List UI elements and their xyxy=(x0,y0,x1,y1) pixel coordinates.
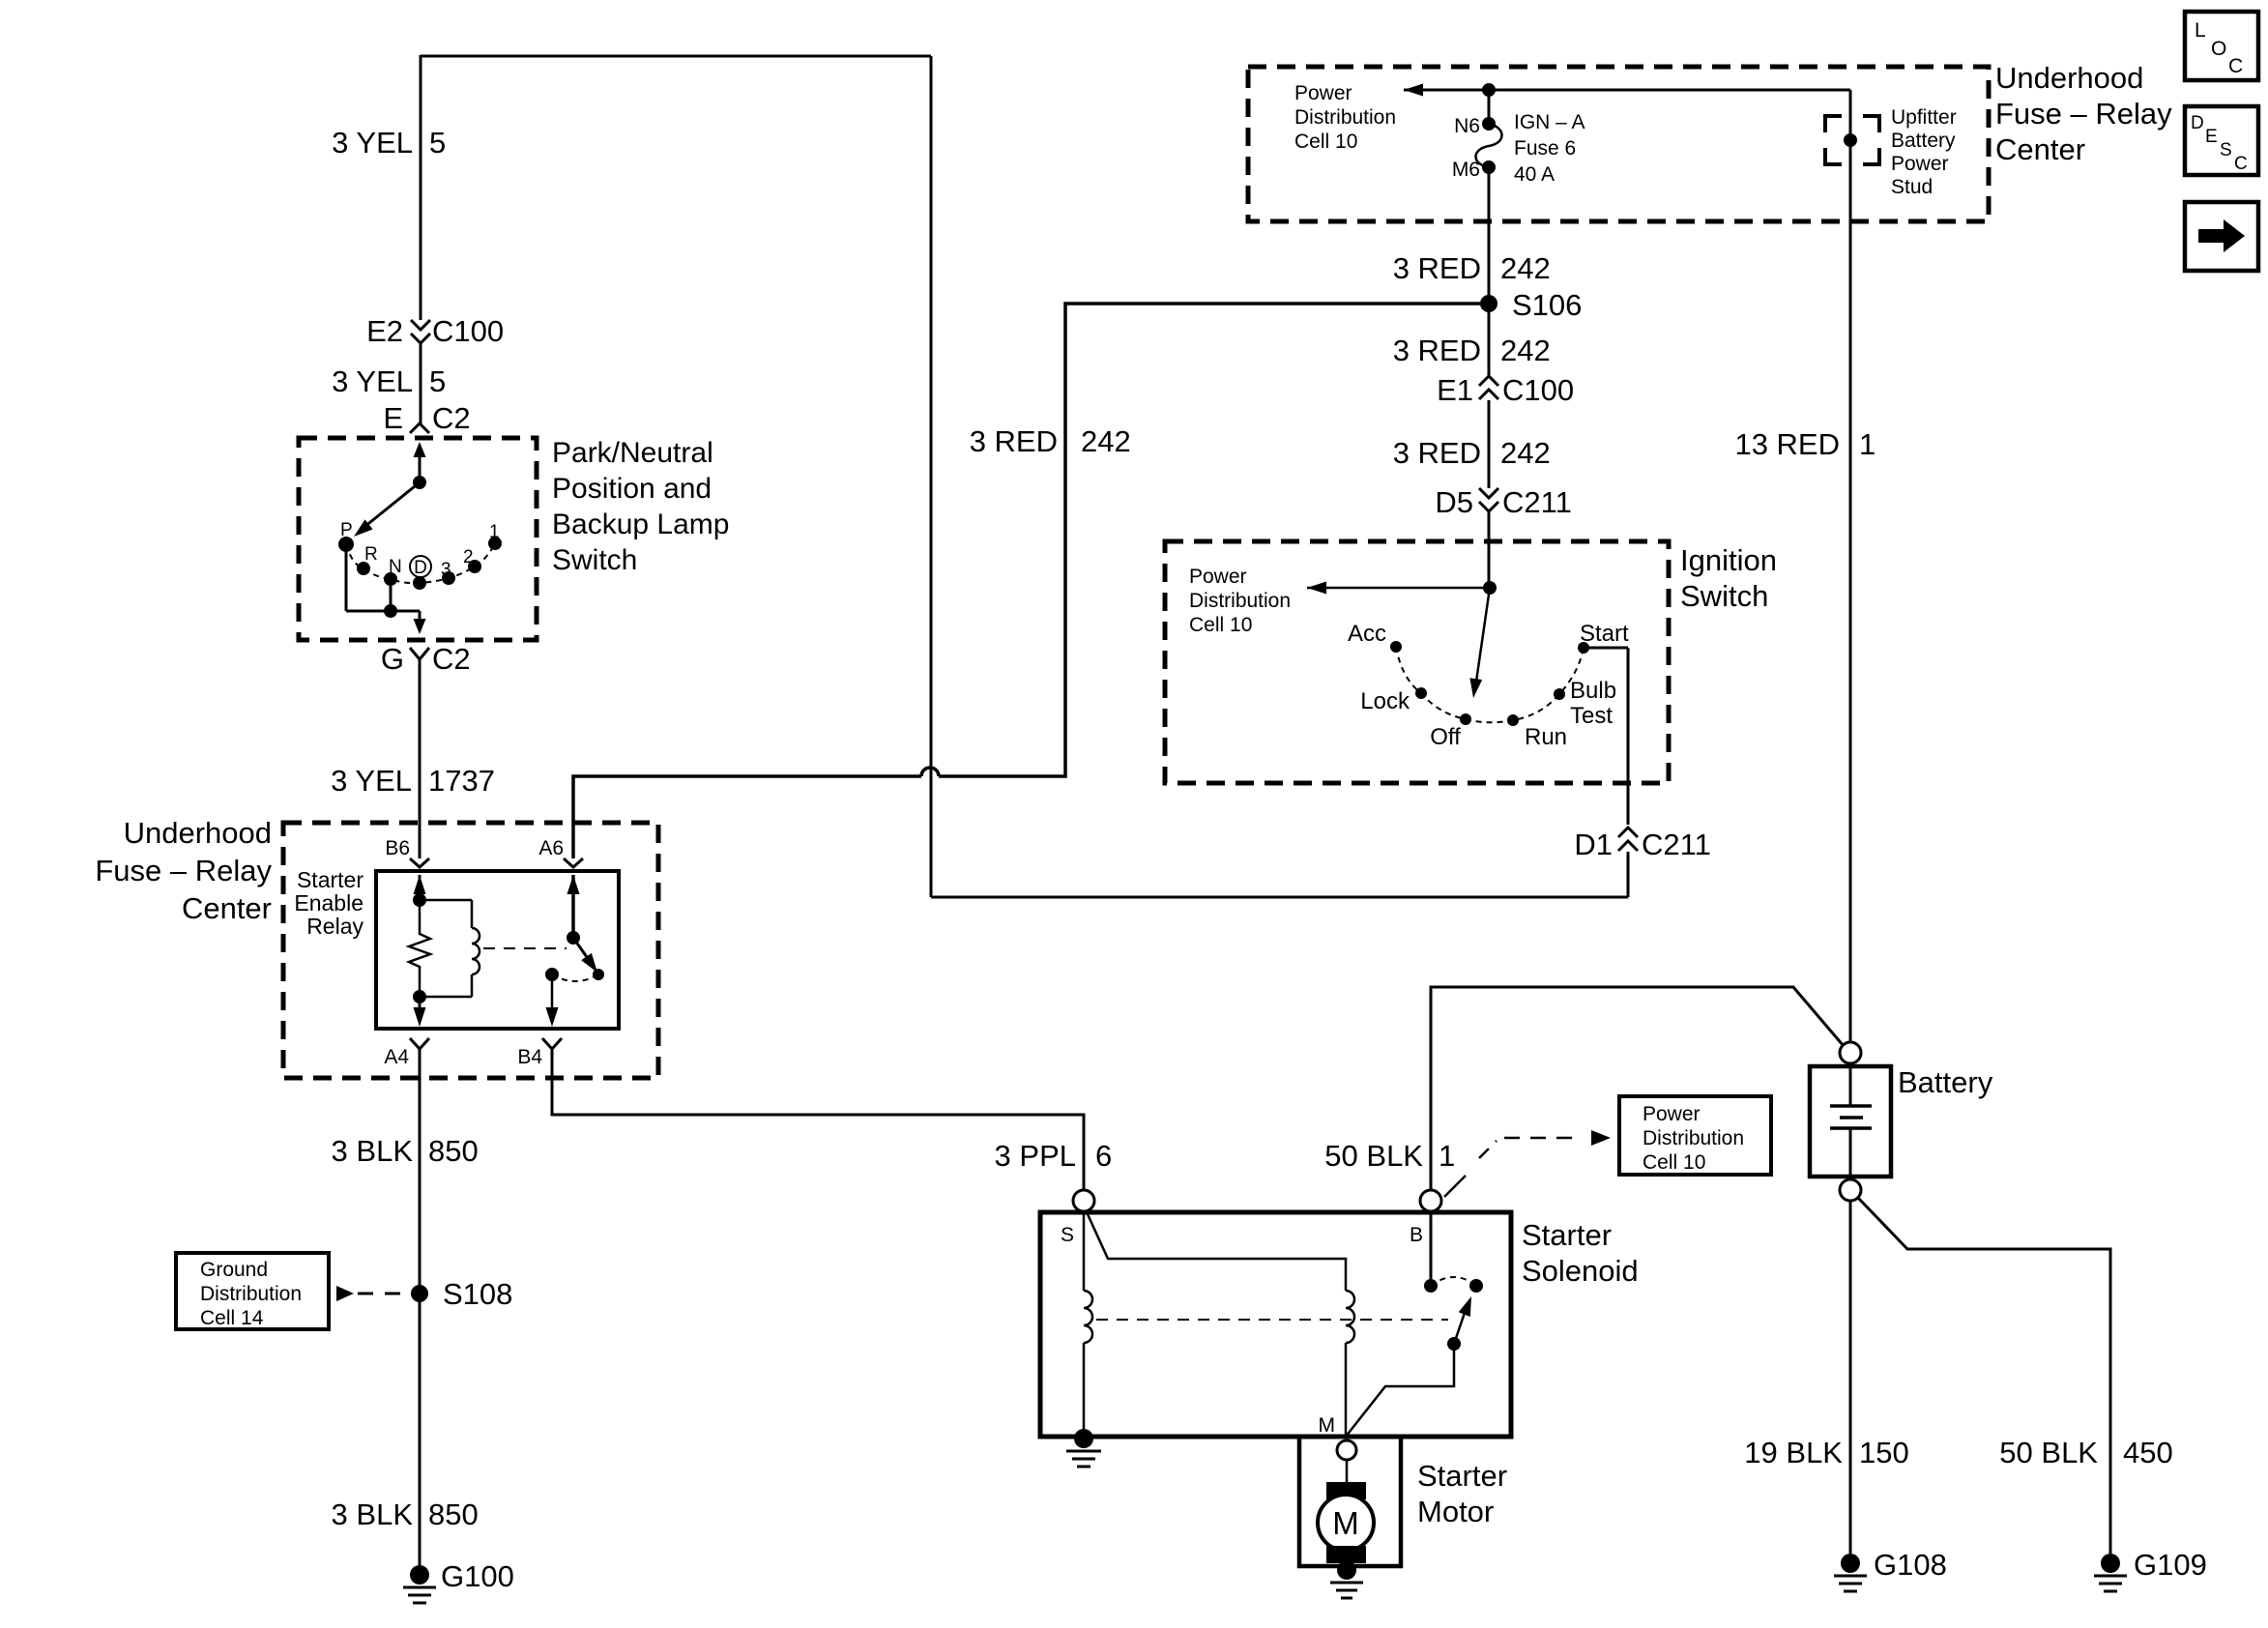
ignition feed junction dot xyxy=(1483,581,1497,595)
relay coil L (arcs) xyxy=(472,928,480,974)
Starter Motor box xyxy=(1299,1437,1401,1566)
svg-text:13 RED: 13 RED xyxy=(1734,427,1840,461)
svg-text:50 BLK: 50 BLK xyxy=(1999,1436,2098,1469)
relay pin A4 vee xyxy=(410,1038,429,1049)
relay contact entry arrow xyxy=(567,875,580,938)
battery negative terminal ring xyxy=(1840,1179,1861,1201)
svg-text:Distribution: Distribution xyxy=(200,1283,302,1305)
solenoid dashed actuation link xyxy=(1096,1319,1448,1321)
svg-text:3 YEL: 3 YEL xyxy=(331,764,412,798)
wire 3 BLK 850 upper xyxy=(419,1049,422,1294)
label M motor xyxy=(1332,1505,1359,1541)
ignition contact Lock dot xyxy=(1415,687,1427,699)
svg-text:S: S xyxy=(1061,1224,1074,1246)
svg-text:Start: Start xyxy=(1580,621,1629,647)
svg-text:40 A: 40 A xyxy=(1514,163,1555,186)
motor ground dot xyxy=(1337,1560,1356,1580)
PNP wire from N down xyxy=(390,579,393,611)
label Run xyxy=(1525,724,1567,750)
Upfitter Battery Power Stud corner brackets xyxy=(1825,116,1879,164)
fuse feed junction dot xyxy=(1482,83,1496,97)
svg-text:3: 3 xyxy=(441,560,451,580)
feed arrow to Power Distribution xyxy=(1404,84,1489,97)
svg-text:R: R xyxy=(364,544,378,565)
solenoid terminal B ring xyxy=(1420,1190,1441,1211)
Underhood Fuse-Relay Center dashed box (relay) xyxy=(283,823,658,1078)
label IGN - A Fuse 6 40 A xyxy=(1514,111,1585,186)
svg-text:Run: Run xyxy=(1525,724,1567,750)
svg-text:3 RED: 3 RED xyxy=(1393,334,1481,367)
label 2 (PNP) xyxy=(463,547,474,567)
ignition switch movable arm xyxy=(1469,588,1490,698)
label Underhood Fuse - Relay Center (left) xyxy=(95,816,272,925)
label S106 xyxy=(1512,288,1582,322)
svg-text:Test: Test xyxy=(1570,703,1613,729)
wire battery negative to G108 xyxy=(1849,1201,1852,1554)
connector C100 pin E2 (inline connector halves) xyxy=(366,314,504,348)
label 3 YEL 5 (lower) xyxy=(332,364,446,398)
label 3 RED 242 (above S106) xyxy=(1393,251,1551,285)
svg-text:242: 242 xyxy=(1081,424,1131,458)
connector C2 pin E (half caret) xyxy=(383,401,470,435)
svg-text:C: C xyxy=(2228,55,2243,77)
Starter Enable Relay box xyxy=(376,871,619,1029)
svg-text:Motor: Motor xyxy=(1417,1495,1494,1528)
svg-text:1: 1 xyxy=(489,522,500,542)
relay contact exit arrow down xyxy=(546,974,559,1027)
wire top horizontal from PNP switch feed to ignition-start return xyxy=(421,55,931,58)
solenoid hold-in coil xyxy=(1084,1291,1092,1343)
label Ignition Switch xyxy=(1680,543,1777,613)
PNP switch common junction dot xyxy=(413,476,426,489)
svg-text:Cell 14: Cell 14 xyxy=(200,1307,264,1329)
svg-text:B6: B6 xyxy=(385,837,410,859)
PNP output bus wire xyxy=(346,610,420,613)
Park/Neutral Position and Backup Lamp Switch dashed box xyxy=(299,438,537,640)
svg-text:C: C xyxy=(2234,154,2248,174)
svg-text:M: M xyxy=(1332,1505,1359,1541)
svg-text:Fuse – Relay: Fuse – Relay xyxy=(1995,97,2172,131)
label 3 (PNP) xyxy=(441,560,451,580)
svg-text:IGN – A: IGN – A xyxy=(1514,111,1585,133)
svg-text:3 RED: 3 RED xyxy=(970,424,1058,458)
label Starter Enable Relay xyxy=(294,867,363,939)
wire junction to fuse xyxy=(1488,90,1491,120)
battery internal bottom lead xyxy=(1849,1128,1852,1177)
svg-text:G108: G108 xyxy=(1874,1548,1947,1582)
svg-text:C211: C211 xyxy=(1502,485,1572,519)
svg-text:E: E xyxy=(2205,127,2218,147)
svg-text:3 BLK: 3 BLK xyxy=(332,1134,414,1168)
fuse IGN-A Fuse 6 40A element xyxy=(1476,124,1502,167)
svg-text:Battery: Battery xyxy=(1898,1065,1993,1099)
battery positive terminal ring xyxy=(1840,1042,1861,1063)
solenoid arm pivot dot xyxy=(1447,1337,1461,1351)
svg-text:Cell 10: Cell 10 xyxy=(1189,614,1252,636)
svg-text:Relay: Relay xyxy=(306,914,363,939)
Ground Distribution Cell 14 reference box xyxy=(176,1253,329,1329)
solenoid throw contact dot xyxy=(1469,1279,1483,1293)
svg-text:450: 450 xyxy=(2123,1436,2173,1469)
svg-text:3 YEL: 3 YEL xyxy=(332,126,413,160)
svg-text:1737: 1737 xyxy=(428,764,495,798)
label 50 BLK 450 xyxy=(1999,1436,2172,1469)
label Starter Motor xyxy=(1417,1459,1507,1528)
label Off xyxy=(1430,724,1461,750)
PNP switch entry arrow (male pin pointing up at C2) xyxy=(414,442,426,482)
svg-text:Fuse 6: Fuse 6 xyxy=(1514,137,1576,160)
wire 3 YEL 5 upper vertical xyxy=(420,55,422,320)
relay movable arm xyxy=(573,938,597,973)
svg-text:3 RED: 3 RED xyxy=(1393,436,1481,470)
svg-text:Power: Power xyxy=(1294,82,1352,104)
label B6 xyxy=(385,837,410,859)
battery internal top lead xyxy=(1849,1066,1852,1106)
svg-text:E1: E1 xyxy=(1437,373,1473,407)
solenoid pull-in coil xyxy=(1346,1291,1354,1343)
svg-text:50 BLK: 50 BLK xyxy=(1324,1139,1423,1173)
svg-text:Center: Center xyxy=(1995,132,2085,166)
label 50 BLK 1 xyxy=(1324,1139,1455,1173)
label Power Distribution Cell 10 (ignition) xyxy=(1189,566,1291,636)
svg-text:Cell 10: Cell 10 xyxy=(1643,1151,1705,1174)
label 3 PPL 6 xyxy=(995,1139,1113,1173)
svg-text:Battery: Battery xyxy=(1891,130,1956,152)
Starter Solenoid box xyxy=(1040,1212,1511,1437)
svg-text:E2: E2 xyxy=(366,314,403,348)
PNP exit arrow down to C2 pin G xyxy=(414,611,426,634)
label Bulb Test xyxy=(1570,678,1616,729)
fuse M6 terminal dot xyxy=(1482,160,1496,174)
label A6 xyxy=(538,837,564,859)
label 19 BLK 150 xyxy=(1744,1436,1908,1469)
motor brush block bottom xyxy=(1326,1546,1366,1563)
wire 50 BLK 1 from solenoid B to battery positive xyxy=(1431,987,1844,1192)
relay coil wire bottom xyxy=(420,974,472,997)
battery plate long top xyxy=(1830,1104,1872,1108)
upfitter stud dot xyxy=(1844,133,1857,147)
svg-text:3 RED: 3 RED xyxy=(1393,251,1481,285)
solenoid pull-in winding branch xyxy=(1088,1214,1346,1291)
label R xyxy=(364,544,378,565)
relay switch pivot dot xyxy=(567,931,580,945)
ignition dashed position arc xyxy=(1396,647,1584,722)
connector C211 pin D5 (half vees) xyxy=(1435,485,1571,519)
solenoid ground dot xyxy=(1074,1429,1093,1448)
reference arrow to S108 xyxy=(336,1286,410,1301)
svg-text:242: 242 xyxy=(1500,251,1551,285)
svg-text:Ignition: Ignition xyxy=(1680,543,1777,577)
svg-text:A6: A6 xyxy=(538,837,564,859)
PNP dashed position arc xyxy=(346,543,495,583)
svg-text:1: 1 xyxy=(1439,1139,1455,1173)
ground G109 xyxy=(2094,1554,2127,1591)
svg-text:G109: G109 xyxy=(2134,1548,2207,1582)
label Battery xyxy=(1898,1065,1993,1099)
wire start return riser to D1 xyxy=(1627,852,1630,897)
svg-text:Cell 10: Cell 10 xyxy=(1294,131,1357,153)
motor brush block top xyxy=(1326,1482,1366,1499)
label B terminal xyxy=(1410,1224,1423,1246)
label Upfitter Battery Power Stud xyxy=(1891,106,1957,198)
svg-text:Switch: Switch xyxy=(552,544,637,576)
svg-text:L: L xyxy=(2195,19,2206,42)
svg-text:Distribution: Distribution xyxy=(1294,106,1396,129)
wire 3 RED 242 branch from S106 to relay contact A6 xyxy=(573,304,1480,858)
connector C100 pin E1 (half carets) xyxy=(1437,373,1574,407)
label G108 xyxy=(1874,1548,1947,1582)
fuse N6 terminal dot xyxy=(1482,117,1496,131)
wire slash reference mark xyxy=(1444,1176,1466,1197)
svg-text:P: P xyxy=(340,520,353,540)
relay pin A6 vee xyxy=(564,858,583,867)
label 13 RED 1 xyxy=(1734,427,1875,461)
wire fuse feed to upfitter stud xyxy=(1489,90,1850,136)
svg-text:Position and: Position and xyxy=(552,473,712,505)
wire 3 YEL 1737 vertical xyxy=(419,659,422,858)
svg-text:A4: A4 xyxy=(384,1046,409,1068)
svg-text:Fuse – Relay: Fuse – Relay xyxy=(95,854,272,887)
ignition contact Bulb Test dot xyxy=(1554,688,1565,700)
ground G108 xyxy=(1834,1554,1867,1591)
solenoid pull-in coil to M xyxy=(1345,1343,1348,1437)
label N6 xyxy=(1454,115,1480,137)
svg-text:Distribution: Distribution xyxy=(1189,590,1291,612)
svg-text:19 BLK: 19 BLK xyxy=(1744,1436,1843,1469)
relay resistor R (zigzag) xyxy=(409,900,430,997)
LOC icon box xyxy=(2185,12,2258,80)
solenoid movable arm xyxy=(1454,1296,1471,1344)
solenoid M terminal ring xyxy=(1337,1440,1356,1460)
svg-text:Power: Power xyxy=(1189,566,1247,588)
svg-text:242: 242 xyxy=(1500,436,1551,470)
label Underhood Fuse - Relay Center (top right) xyxy=(1995,61,2172,166)
solenoid dashed throw arc xyxy=(1431,1277,1476,1286)
label Park/Neutral Position and Backup Lamp Switch xyxy=(552,437,729,576)
svg-text:Power: Power xyxy=(1643,1103,1701,1125)
ignition feed arrow to power distribution xyxy=(1307,582,1490,595)
relay coil-side entry arrow xyxy=(414,875,426,900)
svg-text:B: B xyxy=(1410,1224,1423,1246)
next-page arrow icon box xyxy=(2185,202,2258,271)
svg-text:D: D xyxy=(2191,113,2204,133)
relay stationary contact dot xyxy=(545,968,559,981)
PNP contact R dot xyxy=(357,562,370,575)
wire 3 YEL 5 lower vertical xyxy=(420,343,422,423)
solenoid B contact lead xyxy=(1430,1211,1433,1286)
battery plate short xyxy=(1840,1116,1863,1119)
svg-text:Underhood: Underhood xyxy=(1995,61,2143,95)
motor lead from M xyxy=(1346,1460,1349,1487)
svg-text:Switch: Switch xyxy=(1680,579,1768,613)
PNP contact 3 dot xyxy=(442,571,455,585)
svg-text:M6: M6 xyxy=(1452,159,1480,181)
PNP switch movable contact arm toward P xyxy=(354,482,420,537)
label 1 (PNP) xyxy=(489,522,500,542)
label Start xyxy=(1580,621,1629,647)
label A4 xyxy=(384,1046,409,1068)
label G100 xyxy=(441,1559,514,1593)
relay coil exit arrow down xyxy=(414,997,426,1027)
ignition contact Start dot xyxy=(1578,642,1589,654)
svg-text:850: 850 xyxy=(428,1134,479,1168)
battery plate long bottom xyxy=(1830,1126,1872,1130)
svg-text:C2: C2 xyxy=(432,642,471,676)
svg-text:Center: Center xyxy=(182,891,272,925)
battery B1 box xyxy=(1810,1066,1891,1177)
label 3 BLK 850 (lower) xyxy=(332,1497,479,1531)
connector C2 pin G (half vee) xyxy=(381,642,471,676)
ignition contact Off dot xyxy=(1460,713,1471,725)
svg-text:Starter: Starter xyxy=(297,867,363,892)
svg-text:Ground: Ground xyxy=(200,1259,268,1281)
wire ignition start return vertical xyxy=(930,56,933,897)
motor ground symbol xyxy=(1330,1583,1363,1598)
Underhood Fuse-Relay Center dashed box (top) xyxy=(1248,67,1989,221)
label 3 BLK 850 (upper) xyxy=(332,1134,479,1168)
svg-text:Enable: Enable xyxy=(294,890,363,916)
svg-text:E: E xyxy=(383,401,403,435)
label B4 xyxy=(517,1046,542,1068)
label M terminal xyxy=(1319,1414,1336,1437)
label 3 YEL 1737 xyxy=(331,764,495,798)
svg-text:Upfitter: Upfitter xyxy=(1891,106,1957,129)
svg-text:Starter: Starter xyxy=(1522,1218,1612,1252)
svg-text:Underhood: Underhood xyxy=(124,816,272,850)
svg-text:D1: D1 xyxy=(1574,828,1613,861)
svg-text:N: N xyxy=(389,557,402,577)
svg-text:6: 6 xyxy=(1095,1139,1112,1173)
svg-text:S: S xyxy=(2220,140,2232,160)
svg-text:242: 242 xyxy=(1500,334,1551,367)
svg-text:5: 5 xyxy=(429,126,446,160)
PNP contact P dot xyxy=(338,537,354,552)
label Starter Solenoid xyxy=(1522,1218,1639,1288)
svg-text:3 YEL: 3 YEL xyxy=(332,364,413,398)
svg-text:Solenoid: Solenoid xyxy=(1522,1254,1639,1288)
label N xyxy=(389,557,402,577)
svg-text:Power: Power xyxy=(1891,153,1949,175)
ignition contact Run dot xyxy=(1507,714,1519,726)
wire fuse M6 down to S106 xyxy=(1488,167,1491,304)
relay arm end dot xyxy=(593,969,604,980)
relay pin B4 vee xyxy=(542,1038,562,1049)
svg-text:150: 150 xyxy=(1859,1436,1909,1469)
svg-text:D: D xyxy=(414,558,427,578)
svg-text:N6: N6 xyxy=(1454,115,1480,137)
relay dashed throw arc xyxy=(552,974,598,981)
DESC icon box xyxy=(2185,106,2258,175)
svg-text:C100: C100 xyxy=(432,314,504,348)
label G109 xyxy=(2134,1548,2207,1582)
label Power Distribution Cell 10 (battery) xyxy=(1643,1103,1744,1174)
solenoid ground symbol xyxy=(1066,1451,1101,1467)
label S terminal xyxy=(1061,1224,1074,1246)
svg-text:Bulb: Bulb xyxy=(1570,678,1616,704)
label 3 RED 242 (below S106) xyxy=(1393,334,1551,367)
wire S106 to C100 xyxy=(1488,304,1491,376)
wire 3 BLK 850 lower xyxy=(419,1294,422,1575)
wire C211 into ignition switch xyxy=(1488,511,1491,588)
solenoid B contact dot xyxy=(1424,1279,1438,1293)
label M6 xyxy=(1452,159,1480,181)
svg-text:O: O xyxy=(2211,38,2226,60)
svg-text:C100: C100 xyxy=(1502,373,1574,407)
label P xyxy=(340,520,353,540)
label 3 RED 242 (left branch) xyxy=(970,424,1131,458)
label 3 YEL 5 (upper) xyxy=(332,126,446,160)
svg-text:Starter: Starter xyxy=(1417,1459,1507,1493)
splice S106 dot xyxy=(1480,295,1497,312)
label Power Distribution Cell 10 (top box) xyxy=(1294,82,1396,153)
svg-text:D5: D5 xyxy=(1435,485,1473,519)
dashed reference arrow to Power Distribution Cell 10 xyxy=(1479,1130,1611,1158)
svg-text:2: 2 xyxy=(463,547,474,567)
svg-text:3 BLK: 3 BLK xyxy=(332,1497,414,1531)
wire 3 PPL 6 run xyxy=(552,1049,1084,1192)
relay coil top junction dot xyxy=(413,893,426,907)
svg-text:S106: S106 xyxy=(1512,288,1582,322)
svg-text:5: 5 xyxy=(429,364,446,398)
svg-text:Acc: Acc xyxy=(1348,621,1386,647)
svg-text:850: 850 xyxy=(428,1497,479,1531)
ignition contact Acc dot xyxy=(1390,641,1402,653)
svg-text:Off: Off xyxy=(1430,724,1461,750)
splice S108 dot xyxy=(411,1285,428,1302)
PNP contact N dot xyxy=(384,572,397,586)
svg-text:S108: S108 xyxy=(443,1277,512,1311)
solenoid terminal S ring xyxy=(1073,1190,1094,1211)
svg-text:B4: B4 xyxy=(517,1046,542,1068)
Power Distribution Cell 10 reference box (battery) xyxy=(1619,1096,1771,1175)
svg-text:3 PPL: 3 PPL xyxy=(995,1139,1076,1173)
label Acc xyxy=(1348,621,1386,647)
relay dashed actuation link xyxy=(483,947,567,949)
PNP contact 1 dot xyxy=(488,537,502,550)
wire battery negative branch to G109 xyxy=(1858,1198,2110,1554)
solenoid hold-in winding lead xyxy=(1083,1211,1086,1291)
PNP junction dot at N leg xyxy=(384,604,397,618)
label 3 RED 242 (below C100) xyxy=(1393,436,1551,470)
wire 13 RED 1 stud to battery xyxy=(1849,143,1852,1042)
ground G100 xyxy=(403,1565,436,1603)
wire Start to C211 D1 xyxy=(1584,647,1628,650)
PNP contact D dot xyxy=(413,576,426,590)
svg-text:Stud: Stud xyxy=(1891,176,1933,198)
wire start return horizontal xyxy=(931,896,1628,899)
solenoid hold-in coil to ground xyxy=(1083,1343,1086,1437)
relay pin B6 vee xyxy=(410,858,429,867)
svg-text:Park/Neutral: Park/Neutral xyxy=(552,437,713,469)
svg-text:G100: G100 xyxy=(441,1559,514,1593)
svg-text:C211: C211 xyxy=(1642,828,1711,861)
solenoid arm linkage to M xyxy=(1346,1344,1454,1437)
svg-text:C2: C2 xyxy=(432,401,471,435)
motor armature circle xyxy=(1318,1495,1374,1551)
relay coil wire top xyxy=(420,900,472,928)
label Ground Distribution Cell 14 xyxy=(200,1259,302,1329)
PNP contact 2 dot xyxy=(468,560,481,573)
svg-text:M: M xyxy=(1319,1414,1336,1437)
relay coil bottom junction dot xyxy=(413,990,426,1003)
label Lock xyxy=(1360,688,1410,714)
svg-text:Distribution: Distribution xyxy=(1643,1127,1744,1149)
wire C100 to C211 xyxy=(1488,400,1491,488)
wire D1 to ignition switch Start xyxy=(1627,648,1630,825)
circled D drive position xyxy=(410,556,431,578)
connector C211 pin D1 (half carets) xyxy=(1574,828,1710,861)
svg-text:Lock: Lock xyxy=(1360,688,1410,714)
